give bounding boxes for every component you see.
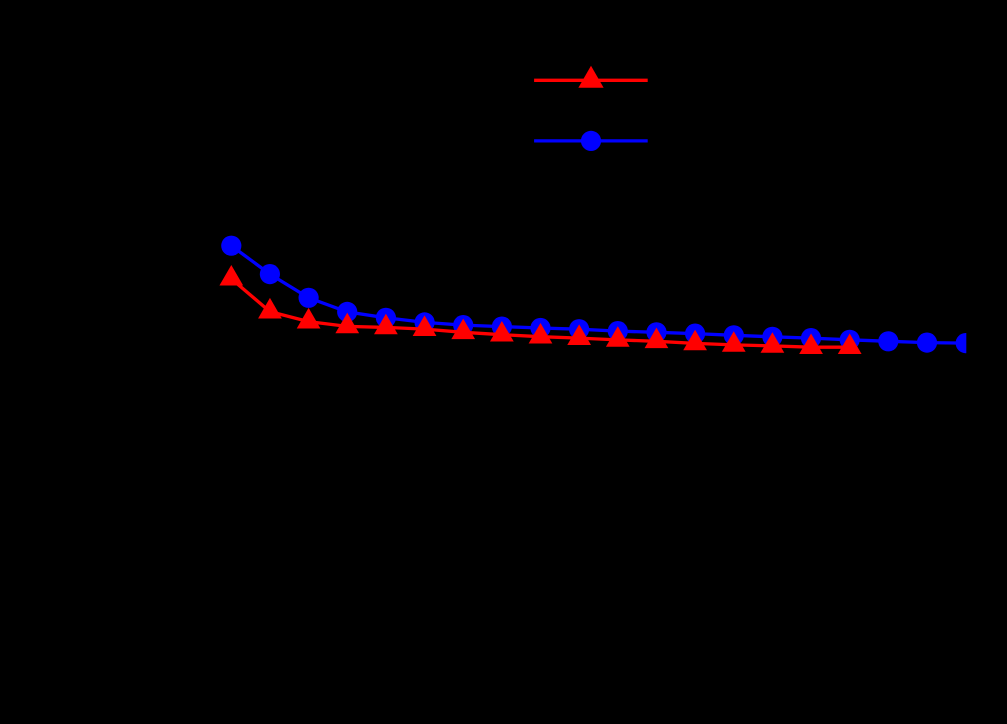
legend red triangle marker [578, 66, 603, 88]
red series markers [219, 265, 861, 354]
blue series line [231, 246, 965, 343]
legend red line [534, 79, 648, 82]
blue series markers [221, 236, 976, 354]
legend blue line [534, 139, 648, 142]
legend blue circle marker [581, 131, 601, 151]
red series line [231, 279, 849, 348]
